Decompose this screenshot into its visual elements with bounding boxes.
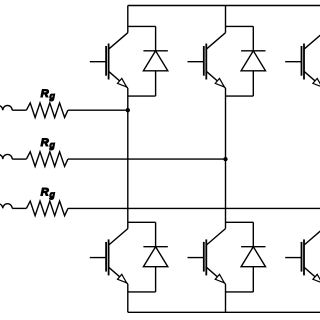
wire: phase B to leg 2: [68, 158, 226, 160]
inductor LB (source inductance, clipped at edge): [0, 154, 12, 159]
wire: top cell 2 emitter rail: [226, 95, 254, 97]
wire: bottom cell 1 emitter rail: [128, 291, 156, 293]
wire: bottom cell 2 emitter rail: [226, 291, 254, 293]
wire: phase C to leg 3 (runs to right edge): [68, 207, 320, 209]
svg-text:g: g: [49, 189, 56, 199]
transistor Q5 (IGBT): [285, 33, 320, 88]
svg-text:g: g: [49, 91, 56, 101]
diode D4 (freewheeling): [241, 222, 265, 292]
node B: junction dot on leg 2: [223, 157, 227, 161]
transistor Q1 (IGBT): [90, 33, 128, 88]
wire: phase B inductor to resistor: [12, 158, 26, 160]
wire: phase leg 2 (midpoint vertical): [225, 88, 227, 229]
wire: bottom cell 1 collector rail: [128, 221, 156, 223]
wire: phase leg 1 (midpoint vertical): [127, 88, 129, 229]
resistor Rg (phase B gate resistor): [26, 152, 68, 167]
transistor Q6 (IGBT): [285, 229, 320, 284]
wire: phase C inductor to resistor: [12, 207, 26, 209]
wire: negative DC bus (bottom rail): [128, 311, 320, 313]
wire: positive DC bus (top rail): [128, 5, 320, 7]
transistor Q2 (IGBT): [90, 229, 128, 284]
svg-text:R: R: [41, 88, 49, 100]
value label Rg for phase B resistor: [41, 137, 56, 150]
wire: top cell 2 collector rail: [226, 25, 254, 27]
wire: cell 2 emitter to negative bus: [225, 284, 227, 312]
transistor Q4 (IGBT): [188, 229, 226, 284]
resistor Rg (phase C gate resistor): [26, 201, 68, 216]
inductor LC (source inductance, clipped at edge): [0, 204, 12, 209]
diode D2 (freewheeling): [143, 222, 167, 292]
diode D1 (freewheeling): [143, 26, 167, 96]
inductor LA (source inductance, clipped at edge): [0, 105, 12, 110]
wire: phase A inductor to resistor: [12, 109, 26, 111]
svg-text:g: g: [49, 140, 56, 150]
wire: top cell 1 emitter rail: [128, 95, 156, 97]
value label Rg for phase C resistor: [41, 186, 56, 199]
transistor Q3 (IGBT): [188, 33, 226, 88]
svg-text:R: R: [41, 186, 49, 198]
svg-text:R: R: [41, 137, 49, 149]
wire: drop from positive bus to cell 2: [225, 6, 227, 33]
value label Rg for phase A resistor: [41, 88, 56, 101]
wire: bottom cell 2 collector rail: [226, 221, 254, 223]
wire: phase A to leg 1: [68, 109, 128, 111]
wire: drop from positive bus to cell 1: [127, 6, 129, 33]
wire: cell 1 emitter to negative bus: [127, 284, 129, 312]
resistor Rg (phase A gate resistor): [26, 103, 68, 118]
diode D3 (freewheeling): [241, 26, 265, 96]
node A: junction dot on leg 1: [126, 108, 130, 112]
wire: top cell 1 collector rail: [128, 25, 156, 27]
